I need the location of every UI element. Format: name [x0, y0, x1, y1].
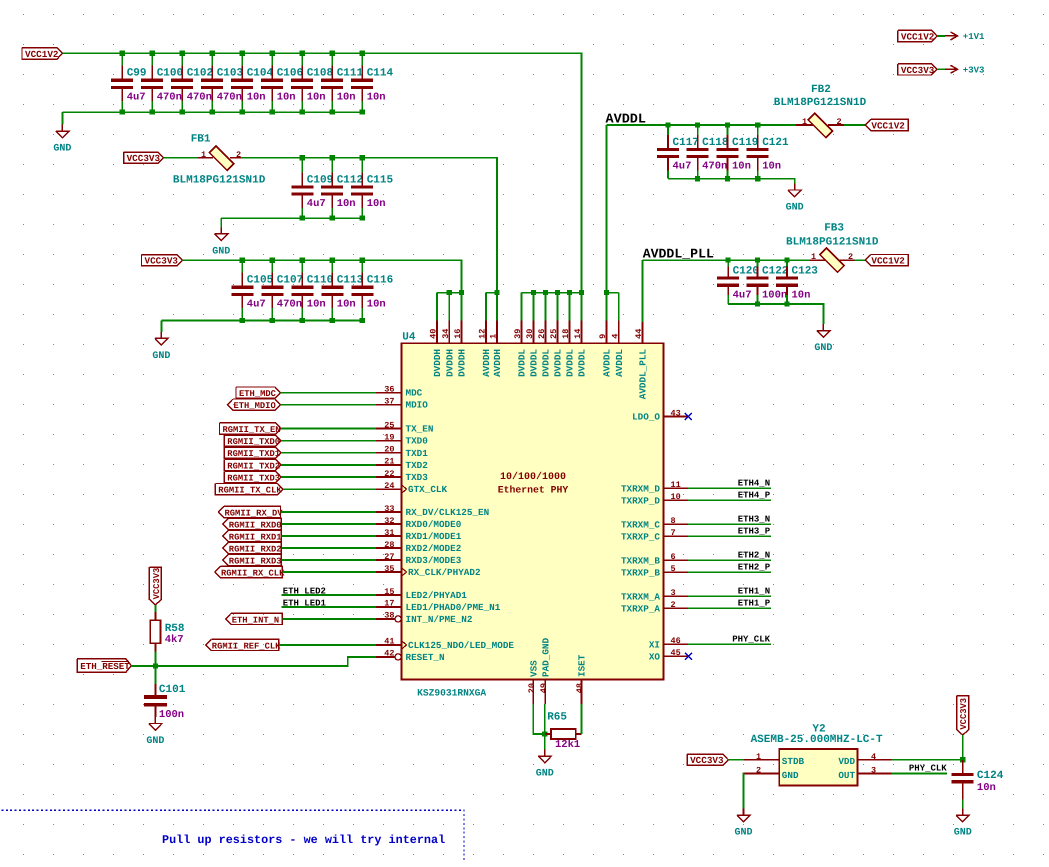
- svg-text:470n: 470n: [217, 91, 242, 103]
- svg-text:VCC1V2: VCC1V2: [25, 49, 59, 60]
- svg-text:C108: C108: [307, 68, 334, 80]
- svg-text:FB2: FB2: [811, 84, 831, 96]
- svg-text:GND: GND: [814, 343, 832, 354]
- svg-text:C104: C104: [247, 68, 274, 80]
- svg-text:4k7: 4k7: [165, 634, 184, 646]
- svg-text:RESET_N: RESET_N: [406, 652, 445, 663]
- svg-text:43: 43: [671, 408, 681, 418]
- svg-text:VCC1V2: VCC1V2: [871, 256, 905, 267]
- svg-text:RGMII_TXD1: RGMII_TXD1: [227, 449, 280, 459]
- svg-text:4u7: 4u7: [127, 91, 146, 103]
- svg-text:4u7: 4u7: [307, 198, 326, 210]
- svg-text:9: 9: [598, 334, 608, 339]
- svg-text:C110: C110: [307, 275, 333, 287]
- svg-text:4: 4: [610, 334, 620, 339]
- svg-text:C102: C102: [187, 68, 213, 80]
- svg-text:10n: 10n: [732, 161, 751, 173]
- svg-text:18: 18: [561, 329, 571, 339]
- svg-text:C106: C106: [277, 68, 303, 80]
- svg-text:C115: C115: [367, 174, 394, 186]
- svg-text:10/100/1000: 10/100/1000: [500, 471, 566, 483]
- svg-text:41: 41: [384, 637, 394, 647]
- svg-text:5: 5: [671, 564, 676, 574]
- svg-text:48: 48: [575, 683, 585, 693]
- svg-text:ETH3_N: ETH3_N: [738, 515, 770, 525]
- svg-text:STDB: STDB: [782, 756, 805, 767]
- svg-text:DVDDL: DVDDL: [541, 349, 552, 377]
- svg-text:GND: GND: [536, 769, 554, 780]
- svg-text:TXRXP_C: TXRXP_C: [621, 531, 660, 542]
- svg-text:1: 1: [811, 252, 816, 262]
- svg-text:22: 22: [384, 469, 394, 479]
- svg-text:39: 39: [513, 329, 523, 339]
- svg-text:LDO_O: LDO_O: [632, 412, 660, 423]
- svg-text:AVDDL_PLL: AVDDL_PLL: [638, 349, 649, 400]
- svg-text:PHY_CLK: PHY_CLK: [909, 764, 947, 774]
- svg-text:DVDDL: DVDDL: [529, 349, 540, 377]
- svg-text:2: 2: [836, 117, 841, 127]
- svg-text:RGMII_RXD1: RGMII_RXD1: [229, 532, 282, 542]
- svg-text:24: 24: [384, 481, 394, 491]
- svg-text:34: 34: [441, 329, 451, 339]
- svg-text:2: 2: [236, 150, 241, 160]
- svg-text:AVDDL: AVDDL: [614, 349, 625, 377]
- svg-text:10n: 10n: [977, 782, 996, 794]
- svg-text:8: 8: [671, 516, 676, 526]
- svg-text:C107: C107: [277, 275, 303, 287]
- svg-text:U4: U4: [402, 332, 416, 344]
- svg-text:20: 20: [527, 683, 537, 693]
- svg-text:2: 2: [848, 252, 853, 262]
- svg-text:ISET: ISET: [577, 654, 588, 677]
- svg-text:TXD0: TXD0: [406, 436, 429, 447]
- svg-text:4u7: 4u7: [733, 290, 752, 302]
- svg-text:C112: C112: [337, 174, 363, 186]
- svg-text:LED1/PHAD0/PME_N1: LED1/PHAD0/PME_N1: [406, 602, 501, 613]
- svg-text:17: 17: [384, 599, 394, 609]
- svg-text:1: 1: [489, 334, 499, 339]
- svg-text:TXRXM_B: TXRXM_B: [621, 555, 660, 566]
- svg-text:10n: 10n: [307, 91, 326, 103]
- svg-text:RXD3/MODE3: RXD3/MODE3: [406, 555, 462, 566]
- svg-text:DVDDH: DVDDH: [457, 349, 468, 377]
- svg-text:CLK125_NDO/LED_MODE: CLK125_NDO/LED_MODE: [408, 640, 514, 651]
- svg-text:GND: GND: [954, 828, 972, 839]
- svg-text:ETH_MDIO: ETH_MDIO: [234, 401, 276, 411]
- svg-text:15: 15: [384, 587, 394, 597]
- svg-text:GND: GND: [212, 246, 230, 257]
- svg-text:3: 3: [671, 588, 676, 598]
- svg-text:40: 40: [429, 329, 439, 339]
- svg-text:TXD1: TXD1: [406, 448, 429, 459]
- svg-text:FB3: FB3: [824, 223, 844, 235]
- svg-text:25: 25: [384, 420, 394, 430]
- svg-text:RGMII_REF_CLK: RGMII_REF_CLK: [212, 641, 281, 651]
- svg-text:ETH_RESET: ETH_RESET: [80, 661, 130, 672]
- svg-text:VDD: VDD: [838, 756, 855, 767]
- svg-text:10n: 10n: [762, 161, 781, 173]
- svg-text:RGMII_TXD3: RGMII_TXD3: [227, 473, 280, 483]
- svg-text:3: 3: [871, 766, 876, 776]
- svg-text:16: 16: [453, 329, 463, 339]
- svg-text:VCC1V2: VCC1V2: [871, 120, 905, 131]
- svg-text:ETH4_P: ETH4_P: [738, 491, 771, 501]
- svg-text:C113: C113: [337, 275, 364, 287]
- svg-text:RGMII_TXD0: RGMII_TXD0: [227, 437, 280, 447]
- svg-text:OUT: OUT: [838, 770, 855, 781]
- svg-text:TXD3: TXD3: [406, 472, 429, 483]
- svg-text:14: 14: [573, 329, 583, 339]
- svg-text:RGMII_RX_DV: RGMII_RX_DV: [225, 508, 284, 518]
- svg-text:C101: C101: [159, 684, 186, 696]
- svg-text:XI: XI: [649, 639, 660, 650]
- svg-text:10n: 10n: [367, 298, 386, 310]
- svg-text:VSS: VSS: [529, 660, 540, 677]
- svg-text:1: 1: [756, 752, 761, 762]
- svg-text:100n: 100n: [159, 709, 184, 721]
- svg-text:ETH2_P: ETH2_P: [738, 563, 771, 573]
- svg-text:TXD2: TXD2: [406, 460, 429, 471]
- svg-text:27: 27: [384, 552, 394, 562]
- svg-text:100n: 100n: [762, 290, 787, 302]
- svg-text:VCC3V3: VCC3V3: [959, 698, 969, 730]
- svg-text:ETH4_N: ETH4_N: [738, 479, 770, 489]
- svg-text:BLM18PG121SN1D: BLM18PG121SN1D: [173, 174, 266, 186]
- svg-text:19: 19: [384, 433, 394, 443]
- svg-text:ETH2_N: ETH2_N: [738, 551, 770, 561]
- svg-text:4u7: 4u7: [673, 161, 692, 173]
- svg-text:Ethernet PHY: Ethernet PHY: [498, 484, 569, 495]
- svg-text:10n: 10n: [277, 91, 296, 103]
- svg-text:11: 11: [671, 480, 681, 490]
- svg-text:C118: C118: [702, 137, 729, 149]
- svg-text:TXRXM_A: TXRXM_A: [621, 591, 660, 602]
- svg-text:GND: GND: [152, 351, 170, 362]
- svg-text:10: 10: [671, 492, 681, 502]
- svg-text:GND: GND: [53, 144, 71, 155]
- svg-text:4u7: 4u7: [247, 298, 266, 310]
- svg-text:10n: 10n: [792, 290, 811, 302]
- svg-text:49: 49: [539, 683, 549, 693]
- svg-text:C121: C121: [762, 137, 789, 149]
- svg-text:470n: 470n: [277, 298, 302, 310]
- svg-text:C103: C103: [217, 68, 244, 80]
- svg-text:PHY_CLK: PHY_CLK: [732, 635, 770, 645]
- svg-text:TXRXM_D: TXRXM_D: [621, 483, 660, 494]
- svg-text:LED2/PHYAD1: LED2/PHYAD1: [406, 590, 468, 601]
- svg-text:26: 26: [537, 329, 547, 339]
- svg-text:+3V3: +3V3: [963, 66, 985, 76]
- svg-text:31: 31: [384, 528, 394, 538]
- svg-text:C109: C109: [307, 174, 333, 186]
- svg-text:12k1: 12k1: [555, 739, 580, 751]
- svg-text:VCC3V3: VCC3V3: [152, 568, 162, 600]
- svg-text:TX_EN: TX_EN: [406, 424, 434, 435]
- svg-text:TXRXM_C: TXRXM_C: [621, 519, 660, 530]
- svg-text:7: 7: [671, 528, 676, 538]
- svg-text:ETH1_P: ETH1_P: [738, 599, 771, 609]
- svg-text:10n: 10n: [307, 298, 326, 310]
- svg-text:1: 1: [802, 117, 807, 127]
- svg-text:VCC3V3: VCC3V3: [901, 65, 935, 76]
- svg-text:25: 25: [549, 329, 559, 339]
- svg-text:42: 42: [384, 649, 394, 659]
- svg-text:RX_CLK/PHYAD2: RX_CLK/PHYAD2: [408, 567, 481, 578]
- svg-text:33: 33: [384, 504, 394, 514]
- svg-text:AVDDH: AVDDH: [481, 349, 492, 377]
- svg-text:12: 12: [478, 329, 488, 339]
- svg-text:VCC3V3: VCC3V3: [145, 256, 179, 267]
- svg-text:VCC1V2: VCC1V2: [901, 31, 935, 42]
- svg-text:C123: C123: [792, 265, 819, 277]
- svg-text:GND: GND: [782, 770, 799, 781]
- svg-text:FB1: FB1: [191, 134, 211, 146]
- svg-text:32: 32: [384, 516, 394, 526]
- svg-text:R65: R65: [547, 712, 567, 724]
- svg-text:Pull up resistors - we will tr: Pull up resistors - we will try internal: [162, 833, 445, 847]
- svg-text:GTX_CLK: GTX_CLK: [408, 484, 447, 495]
- svg-text:2: 2: [756, 766, 761, 776]
- svg-text:VCC3V3: VCC3V3: [690, 755, 724, 766]
- svg-text:+1V1: +1V1: [963, 32, 985, 42]
- svg-text:38: 38: [384, 611, 394, 621]
- svg-text:AVDDL: AVDDL: [602, 349, 613, 377]
- svg-text:2: 2: [671, 600, 676, 610]
- svg-text:DVDDH: DVDDH: [432, 349, 443, 377]
- svg-text:MDC: MDC: [406, 388, 423, 399]
- svg-text:36: 36: [384, 384, 394, 394]
- svg-text:10n: 10n: [367, 91, 386, 103]
- svg-text:44: 44: [634, 329, 644, 339]
- svg-text:GND: GND: [786, 203, 804, 214]
- svg-text:RGMII_TX_CLK: RGMII_TX_CLK: [218, 486, 282, 496]
- svg-text:BLM18PG121SN1D: BLM18PG121SN1D: [774, 97, 867, 109]
- svg-text:KSZ9031RNXGA: KSZ9031RNXGA: [417, 688, 486, 699]
- svg-text:C105: C105: [247, 275, 274, 287]
- svg-text:C119: C119: [732, 137, 758, 149]
- svg-text:C116: C116: [367, 275, 393, 287]
- svg-text:C124: C124: [977, 770, 1004, 782]
- svg-text:RGMII_RXD0: RGMII_RXD0: [229, 520, 282, 530]
- svg-text:10n: 10n: [337, 91, 356, 103]
- svg-text:RXD1/MODE1: RXD1/MODE1: [406, 531, 462, 542]
- svg-text:INT_N/PME_N2: INT_N/PME_N2: [406, 614, 473, 625]
- svg-text:VCC3V3: VCC3V3: [127, 153, 161, 164]
- svg-text:GND: GND: [146, 736, 164, 747]
- svg-text:37: 37: [384, 396, 394, 406]
- svg-text:C99: C99: [127, 68, 147, 80]
- svg-text:28: 28: [384, 540, 394, 550]
- svg-text:30: 30: [525, 329, 535, 339]
- svg-text:1: 1: [201, 150, 206, 160]
- svg-text:TXRXP_B: TXRXP_B: [621, 567, 660, 578]
- svg-text:470n: 470n: [702, 161, 727, 173]
- svg-text:PAD_GND: PAD_GND: [541, 638, 552, 677]
- svg-text:RXD2/MODE2: RXD2/MODE2: [406, 543, 462, 554]
- svg-text:TXRXP_A: TXRXP_A: [621, 603, 660, 614]
- svg-text:DVDDL: DVDDL: [553, 349, 564, 377]
- svg-text:C114: C114: [367, 68, 394, 80]
- svg-text:ETH1_N: ETH1_N: [738, 587, 770, 597]
- svg-text:10n: 10n: [337, 298, 356, 310]
- svg-text:470n: 470n: [157, 91, 182, 103]
- svg-text:RGMII_RXD3: RGMII_RXD3: [229, 556, 282, 566]
- svg-text:6: 6: [671, 552, 676, 562]
- svg-text:MDIO: MDIO: [406, 400, 429, 411]
- svg-text:RGMII_TXD2: RGMII_TXD2: [227, 461, 280, 471]
- svg-text:4: 4: [871, 752, 876, 762]
- svg-text:470n: 470n: [187, 91, 212, 103]
- svg-text:RGMII_RX_CLK: RGMII_RX_CLK: [221, 568, 285, 578]
- svg-text:46: 46: [671, 636, 681, 646]
- svg-text:10n: 10n: [367, 198, 386, 210]
- svg-text:RGMII_RXD2: RGMII_RXD2: [229, 544, 282, 554]
- svg-text:AVDDH: AVDDH: [492, 349, 503, 377]
- svg-text:C111: C111: [337, 68, 364, 80]
- svg-text:21: 21: [384, 457, 394, 467]
- svg-text:DVDDL: DVDDL: [565, 349, 576, 377]
- svg-text:RX_DV/CLK125_EN: RX_DV/CLK125_EN: [406, 507, 490, 518]
- svg-text:20: 20: [384, 445, 394, 455]
- svg-text:GND: GND: [734, 828, 752, 839]
- svg-text:ASEMB-25.000MHZ-LC-T: ASEMB-25.000MHZ-LC-T: [751, 734, 883, 746]
- svg-text:BLM18PG121SN1D: BLM18PG121SN1D: [786, 236, 879, 248]
- svg-text:RGMII_TX_EN: RGMII_TX_EN: [223, 425, 281, 435]
- svg-text:DVDDL: DVDDL: [577, 349, 588, 377]
- svg-text:C100: C100: [157, 68, 183, 80]
- svg-text:ETH_INT_N: ETH_INT_N: [232, 615, 280, 625]
- svg-text:35: 35: [384, 564, 394, 574]
- svg-text:10n: 10n: [337, 198, 356, 210]
- svg-text:TXRXP_D: TXRXP_D: [621, 495, 660, 506]
- svg-text:RXD0/MODE0: RXD0/MODE0: [406, 519, 462, 530]
- svg-text:DVDDL: DVDDL: [517, 349, 528, 377]
- svg-text:ETH3_P: ETH3_P: [738, 527, 771, 537]
- svg-text:DVDDH: DVDDH: [444, 349, 455, 377]
- svg-text:45: 45: [671, 648, 681, 658]
- svg-text:C122: C122: [762, 265, 788, 277]
- svg-text:XO: XO: [649, 651, 661, 662]
- svg-text:C120: C120: [733, 265, 759, 277]
- svg-text:ETH_MDC: ETH_MDC: [239, 389, 277, 399]
- svg-text:C117: C117: [673, 137, 699, 149]
- svg-text:10n: 10n: [247, 91, 266, 103]
